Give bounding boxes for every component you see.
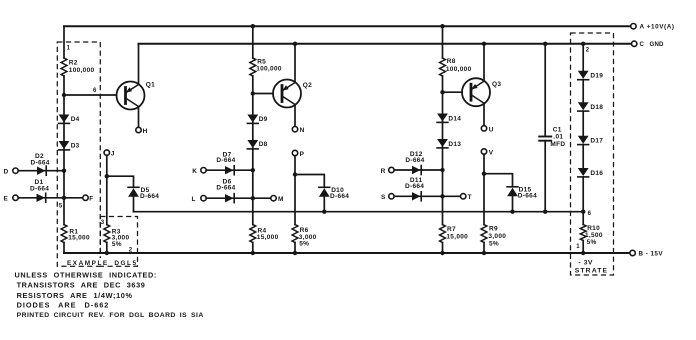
- wire Q1 emitter to GND: [138, 44, 140, 85]
- wire L input to M: [206, 197, 271, 199]
- wire V to D15: [484, 174, 513, 187]
- pin 5: [59, 203, 63, 209]
- svg-text:PRINTED CIRCUIT REV. FOR DGL B: PRINTED CIRCUIT REV. FOR DGL BOARD IS SI…: [17, 312, 204, 319]
- note line 3: [17, 291, 133, 300]
- terminal T: [461, 194, 472, 202]
- node R9 on B rail: [482, 251, 486, 255]
- resistor R1: [61, 225, 90, 243]
- svg-text:Q1: Q1: [146, 82, 155, 89]
- terminal R: [381, 167, 394, 175]
- wire D10 to -3V bus: [323, 197, 325, 212]
- svg-text:DIODES ARE D-662: DIODES ARE D-662: [17, 300, 110, 309]
- terminal F: [83, 195, 94, 202]
- svg-text:R5: R5: [257, 58, 266, 65]
- svg-text:1,500: 1,500: [585, 232, 603, 239]
- svg-text:D-664: D-664: [140, 193, 159, 200]
- diode D12: [405, 151, 424, 174]
- svg-text:RESISTORS ARE 1/4W;10%: RESISTORS ARE 1/4W;10%: [17, 291, 133, 300]
- svg-text:2: 2: [129, 248, 133, 254]
- wire D5 to -3V bus: [133, 197, 135, 212]
- pin 2 gate1: [129, 248, 133, 254]
- note line 1: [15, 270, 157, 279]
- wire P to D10: [295, 175, 324, 188]
- svg-text:S: S: [381, 194, 386, 201]
- svg-text:D13: D13: [448, 141, 461, 148]
- diode D7: [216, 151, 235, 174]
- wire gate2 vertical mid: [252, 76, 254, 225]
- svg-text:J: J: [111, 151, 115, 158]
- dashed outline gate 1 (flip-chip pin box): [57, 42, 100, 266]
- svg-text:D3: D3: [71, 143, 80, 150]
- wire R6 to -15V: [294, 243, 296, 254]
- svg-text:B - 15V: B - 15V: [639, 250, 664, 257]
- resistor R5: [250, 58, 282, 76]
- wire Q1 collector to H: [138, 107, 140, 128]
- svg-text:- 3V: - 3V: [579, 259, 593, 266]
- wire gate1 vertical lower: [63, 243, 65, 254]
- terminal C: [632, 41, 665, 48]
- node R junction: [440, 168, 444, 172]
- wire Q2 emitter to GND: [294, 44, 296, 83]
- node D-input junction: [62, 169, 66, 173]
- diode D16: [578, 168, 604, 177]
- svg-text:R7: R7: [447, 226, 456, 233]
- node Q2 base junction: [251, 91, 255, 95]
- wire gate3 vertical lower: [442, 243, 444, 254]
- svg-text:V: V: [489, 149, 494, 156]
- terminal K: [192, 168, 206, 175]
- svg-text:M: M: [278, 196, 284, 203]
- transistor Q3: [462, 78, 501, 106]
- diode D8: [247, 140, 267, 149]
- node R4 on B rail: [251, 251, 255, 255]
- resistor R4: [250, 225, 279, 243]
- node Q3 emitter on GND rail: [482, 42, 486, 46]
- label EXAMPLE DGL5: [65, 258, 138, 267]
- svg-text:A +10V(A): A +10V(A): [640, 23, 675, 30]
- svg-text:U: U: [489, 126, 494, 133]
- pin 2 strate: [586, 47, 590, 53]
- diode D11: [405, 177, 424, 201]
- svg-text:.01: .01: [553, 134, 563, 141]
- svg-text:STRATE: STRATE: [575, 267, 608, 274]
- resistor R7: [440, 225, 469, 243]
- wire gate2 vertical upper: [252, 26, 254, 58]
- terminal P: [292, 150, 304, 158]
- svg-text:L: L: [192, 196, 196, 203]
- node D15 on bus: [510, 210, 514, 214]
- terminal U: [481, 126, 494, 134]
- wire -15V rail (B): [64, 252, 630, 254]
- pin 6 gate1: [93, 88, 97, 94]
- wire chain segment 1: [582, 44, 584, 71]
- wire R10 to -15V: [582, 241, 584, 254]
- wire Q2 collector to N: [294, 105, 296, 127]
- node E-F junction: [62, 196, 66, 200]
- wire gate1 vertical mid: [63, 76, 65, 225]
- wire C1 upper lead: [544, 44, 546, 136]
- terminal E: [4, 195, 19, 202]
- svg-text:100,000: 100,000: [69, 67, 95, 74]
- svg-text:15,000: 15,000: [257, 234, 279, 241]
- wire Q2 base: [253, 93, 273, 95]
- svg-text:6: 6: [93, 88, 97, 94]
- wire gate3 vertical upper: [442, 26, 444, 58]
- terminal V: [481, 149, 494, 157]
- diode D18: [578, 102, 604, 111]
- svg-text:D-664: D-664: [330, 193, 349, 200]
- svg-text:R9: R9: [489, 225, 498, 232]
- wire gate3 vertical mid: [442, 76, 444, 225]
- transistor Q2: [273, 80, 312, 108]
- diode D9: [247, 115, 267, 124]
- svg-text:D-664: D-664: [216, 184, 235, 191]
- label -3V STRATE: [575, 259, 608, 274]
- node R3 on B rail: [105, 251, 109, 255]
- svg-text:D-664: D-664: [518, 193, 537, 200]
- svg-text:D-664: D-664: [31, 160, 50, 167]
- svg-text:15,000: 15,000: [68, 235, 90, 242]
- svg-text:100,000: 100,000: [446, 66, 472, 73]
- node C1 on bus: [543, 210, 547, 214]
- wire R3 to -15V: [106, 243, 108, 254]
- node R10 on B rail: [581, 251, 585, 255]
- node J junction: [105, 174, 109, 178]
- wire Q3 collector to U: [483, 103, 485, 126]
- diode D15: [507, 187, 537, 200]
- diode D6: [216, 178, 235, 202]
- svg-text:Q3: Q3: [492, 81, 501, 88]
- node chain top on GND rail: [581, 42, 585, 46]
- diode D5: [128, 187, 159, 200]
- node Q2 emitter on GND rail: [293, 42, 297, 46]
- pin 3: [101, 220, 105, 226]
- node Q1 base junction: [62, 93, 66, 97]
- dashed outline -3V strate box: [571, 33, 614, 275]
- note line 5: [17, 312, 204, 319]
- dashed outline R3 box: [100, 217, 137, 267]
- wire R input: [394, 169, 442, 171]
- node P junction: [293, 172, 297, 176]
- wire V vertical: [483, 154, 485, 224]
- terminal A: [631, 23, 675, 30]
- wire J vertical: [106, 155, 108, 224]
- node L junction: [251, 196, 255, 200]
- svg-text:K: K: [192, 168, 197, 175]
- svg-text:3,000: 3,000: [488, 233, 506, 240]
- wire +10V rail (A): [64, 25, 631, 27]
- svg-text:D-664: D-664: [405, 157, 424, 164]
- node K junction: [251, 168, 255, 172]
- node C1 on GND rail: [543, 42, 547, 46]
- wire chain segment 5: [582, 177, 584, 225]
- wire chain segment 3: [582, 111, 584, 136]
- svg-text:5%: 5%: [299, 241, 309, 248]
- wire gate1 vertical upper: [63, 26, 65, 58]
- svg-text:D9: D9: [259, 116, 268, 123]
- terminal D: [4, 168, 19, 175]
- terminal J: [104, 150, 115, 158]
- svg-text:D: D: [4, 168, 9, 175]
- svg-text:D19: D19: [590, 73, 603, 80]
- svg-text:3: 3: [101, 220, 105, 226]
- svg-text:D18: D18: [590, 104, 603, 111]
- svg-text:D-664: D-664: [30, 186, 49, 193]
- wire -3V bus: [134, 211, 584, 213]
- note line 4: [17, 300, 110, 309]
- wire D15 to -3V bus: [512, 196, 514, 211]
- resistor R10: [580, 225, 603, 246]
- svg-text:C: C: [640, 41, 645, 48]
- diode D10: [319, 187, 349, 200]
- wire J to D5: [107, 176, 134, 187]
- diode D1: [30, 179, 49, 202]
- resistor R2: [61, 58, 94, 76]
- note line 2: [17, 281, 146, 290]
- terminal B: [630, 250, 663, 257]
- diode D2: [31, 153, 50, 175]
- svg-text:UNLESS OTHERWISE INDICATED:: UNLESS OTHERWISE INDICATED:: [15, 270, 157, 279]
- transistor Q1: [117, 82, 156, 110]
- svg-text:D-664: D-664: [216, 157, 235, 164]
- svg-text:100,000: 100,000: [256, 66, 282, 73]
- wire Q1 base: [64, 94, 117, 96]
- node S junction: [440, 194, 444, 198]
- svg-text:15,000: 15,000: [446, 233, 468, 240]
- resistor R8: [440, 58, 472, 76]
- node D10 on bus: [322, 210, 326, 214]
- wire Q3 base: [443, 91, 463, 93]
- svg-text:D4: D4: [71, 116, 80, 123]
- svg-text:D-664: D-664: [405, 183, 424, 190]
- diode D13: [437, 139, 461, 148]
- svg-text:GND: GND: [650, 41, 665, 48]
- node R7 on B rail: [440, 251, 444, 255]
- diode D19: [578, 71, 604, 80]
- svg-text:P: P: [300, 151, 305, 158]
- wire S input to T: [394, 195, 460, 197]
- svg-text:D8: D8: [259, 141, 268, 148]
- terminal M: [271, 196, 284, 204]
- svg-text:6: 6: [588, 211, 592, 217]
- svg-text:R2: R2: [69, 60, 78, 67]
- wire chain segment 4: [582, 145, 584, 168]
- svg-text:Q2: Q2: [303, 82, 312, 89]
- wire GND rail (C): [139, 43, 632, 45]
- wire E input to F: [18, 197, 83, 199]
- node Q3 base junction: [440, 90, 444, 94]
- node V junction: [482, 172, 486, 176]
- svg-text:N: N: [300, 127, 305, 134]
- node junction R5 on A rail: [251, 24, 255, 28]
- svg-text:R: R: [381, 168, 386, 175]
- wire C1 lower lead: [544, 141, 546, 212]
- wire K input: [206, 169, 253, 171]
- terminal L: [192, 196, 207, 204]
- node R6 on B rail: [293, 251, 297, 255]
- diode D17: [578, 136, 604, 145]
- wire R9 to -15V: [483, 243, 485, 254]
- svg-text:R8: R8: [447, 58, 456, 65]
- svg-text:5%: 5%: [112, 241, 122, 248]
- svg-text:D17: D17: [590, 138, 603, 145]
- node 6 bus junction: [581, 210, 592, 217]
- terminal H: [136, 127, 148, 135]
- svg-text:TRANSISTORS ARE DEC 3639: TRANSISTORS ARE DEC 3639: [17, 281, 146, 290]
- wire P vertical: [294, 156, 296, 225]
- svg-text:MFD: MFD: [550, 141, 565, 148]
- svg-text:5: 5: [59, 203, 63, 209]
- capacitor C1: [539, 127, 565, 148]
- svg-text:T: T: [468, 194, 472, 201]
- svg-text:1: 1: [576, 244, 580, 250]
- svg-text:EXAMPLE DGL5: EXAMPLE DGL5: [67, 260, 138, 267]
- diode D3: [59, 141, 80, 150]
- node junction R8 on A rail: [440, 24, 444, 28]
- terminal N: [292, 127, 304, 135]
- svg-text:D14: D14: [448, 115, 461, 122]
- svg-text:F: F: [89, 196, 93, 203]
- wire D input: [18, 170, 64, 172]
- resistor R6: [292, 225, 317, 248]
- svg-text:E: E: [4, 196, 9, 203]
- svg-text:H: H: [143, 128, 148, 135]
- svg-text:5%: 5%: [587, 239, 597, 246]
- pin 1 gate1: [67, 45, 71, 51]
- wire Q3 emitter to GND: [483, 44, 485, 81]
- wire gate2 vertical lower: [252, 243, 254, 254]
- svg-text:5%: 5%: [489, 241, 499, 248]
- svg-text:2: 2: [586, 47, 590, 53]
- svg-text:1: 1: [67, 45, 71, 51]
- resistor R9: [481, 225, 506, 248]
- svg-text:C1: C1: [553, 127, 562, 134]
- terminal S: [381, 194, 394, 202]
- wire chain segment 2: [582, 80, 584, 103]
- pin 1 strate: [576, 244, 580, 250]
- svg-text:D16: D16: [590, 170, 603, 177]
- diode D4: [59, 115, 80, 124]
- diode D14: [437, 114, 461, 123]
- resistor R3: [104, 225, 130, 249]
